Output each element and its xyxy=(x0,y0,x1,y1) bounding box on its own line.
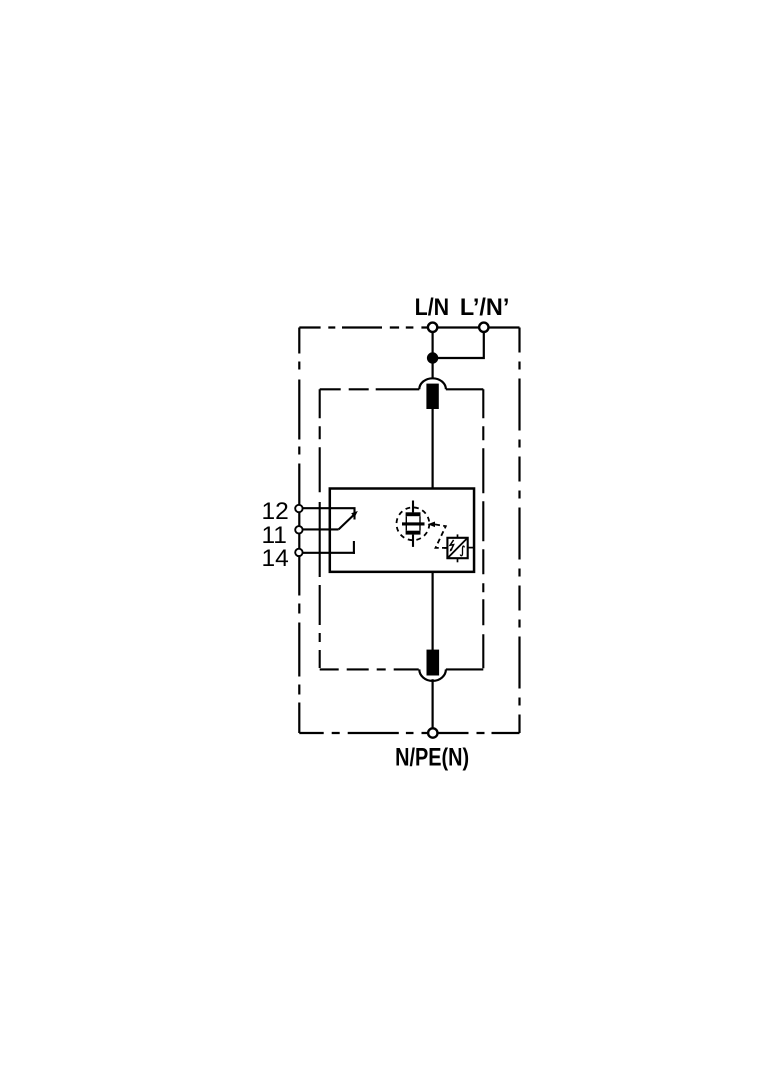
junction node (filled dot) xyxy=(427,352,438,363)
switch arm arrowhead xyxy=(351,511,358,518)
wire: terminal 14 to NO contact xyxy=(303,552,355,554)
bottom disconnect element (filled rectangle) xyxy=(427,650,440,676)
terminal 11 (open circle) xyxy=(295,526,302,533)
protection module box xyxy=(330,489,474,572)
outer enclosure frame bottom edge (dash-dot) xyxy=(299,732,519,734)
outer enclosure frame top edge (dash-dot) xyxy=(299,326,519,328)
terminal 14 (open circle) xyxy=(295,549,302,556)
spark gap bottom lead xyxy=(412,535,414,547)
monitoring signal dashed link xyxy=(435,524,448,548)
wire: module box down to N/PE terminal xyxy=(432,571,434,651)
wire: L/N terminal down to protection module box xyxy=(432,328,434,379)
terminal 12 (open circle) xyxy=(295,505,302,512)
switch arm (changeover contact) xyxy=(339,515,355,530)
inner module frame top edge (dashed, with collar gap) xyxy=(320,388,484,390)
svg-text:N/PE(N): N/PE(N) xyxy=(395,744,469,772)
inner module frame right edge (dashed) xyxy=(482,389,484,669)
top disconnect element (filled rectangle) xyxy=(426,384,438,409)
spark gap top electrode bar xyxy=(406,512,421,516)
NO contact post for terminal 14 xyxy=(353,541,355,554)
terminal L'/N' (open circle) xyxy=(479,323,488,332)
monitoring device right stub xyxy=(468,547,474,549)
spark gap middle electrode line xyxy=(402,522,425,525)
svg-text:L/N: L/N xyxy=(415,294,450,321)
top bushing collar arc xyxy=(419,378,446,389)
spark gap envelope right side xyxy=(419,516,421,531)
inner module frame left edge (dashed, solid where relay wires cross) xyxy=(319,389,321,669)
spark gap envelope left side xyxy=(405,516,407,531)
svg-text:L’/N’: L’/N’ xyxy=(460,294,510,321)
monitoring device diagonal xyxy=(448,539,466,558)
monitoring device bottom stub xyxy=(457,558,459,562)
monitoring device lightning symbol xyxy=(450,540,454,551)
terminal N/PE(N) (open circle) xyxy=(428,728,437,737)
outer enclosure frame left edge (dash-dot) xyxy=(298,328,300,734)
spark gap top lead xyxy=(412,501,414,513)
monitoring device integral symbol xyxy=(460,546,464,556)
monitoring signal arrowhead xyxy=(428,522,435,528)
spark gap monitoring dashed circle xyxy=(397,507,430,540)
spark gap bottom electrode bar xyxy=(406,531,421,535)
outer enclosure frame right edge (dash-dot) xyxy=(518,328,520,734)
monitoring device left stub xyxy=(444,547,447,549)
svg-text:14: 14 xyxy=(262,545,289,572)
monitoring device lightning arrowhead xyxy=(450,549,453,552)
monitoring device top stub xyxy=(457,534,459,537)
wire: terminal 11 to switch arm xyxy=(303,528,339,530)
monitoring/indication device box xyxy=(447,538,467,558)
terminal L/N (open circle) xyxy=(428,323,437,332)
wire: terminal 12 to NC contact (L-shaped) xyxy=(303,508,355,519)
bottom bushing collar arc xyxy=(419,669,446,681)
inner module frame bottom edge (dashed, with collar gap) xyxy=(320,668,484,670)
wire: L'/N' terminal branch down and across to junction xyxy=(433,327,484,358)
